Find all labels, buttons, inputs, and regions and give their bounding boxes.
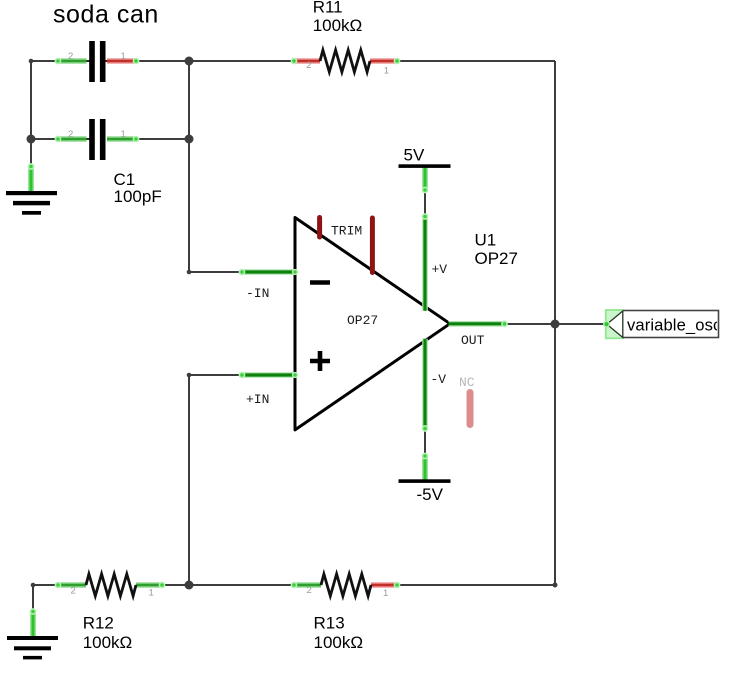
capacitor C1 (55, 119, 138, 160)
wire to +IN pin (189, 374, 242, 376)
op-amp pin -V (422, 339, 427, 431)
svg-text:-IN: -IN (246, 286, 269, 301)
node corner bottom-left (31, 583, 36, 588)
label NC (459, 375, 475, 390)
wire OUT to right junction (505, 323, 555, 325)
op-amp pin +V (422, 214, 427, 311)
svg-text:OUT: OUT (461, 333, 485, 348)
op-amp NC pin (467, 393, 474, 425)
wire bottom-left to ground (32, 585, 34, 612)
wire bottom-left horizontal (33, 584, 58, 586)
wire 5V to +V pin (424, 191, 426, 216)
power 5V (399, 145, 451, 192)
op-amp pin +IN (239, 372, 297, 377)
net label variable_osc (604, 310, 722, 338)
svg-text:2: 2 (68, 129, 73, 140)
junction node top mid (185, 57, 194, 66)
wire -V pin to -5V (424, 429, 426, 455)
wire bottom right horizontal (397, 584, 555, 586)
wire left vertical (top) (30, 61, 32, 139)
op-amp pin -IN (239, 269, 297, 274)
wire R12 to bottom junction (162, 584, 189, 586)
wire mid vertical to -IN corner (188, 139, 190, 272)
resistor R13 (291, 574, 399, 599)
junction node left (C1) (27, 135, 36, 144)
ground (top left) (6, 164, 57, 215)
capacitor soda can (55, 41, 138, 82)
label +V (432, 262, 448, 277)
wire C1 to mid junction (136, 138, 189, 140)
wire top-left horizontal (31, 60, 58, 62)
svg-text:+V: +V (432, 262, 448, 277)
resistor R11 (291, 50, 399, 76)
op-amp pin OUT (449, 321, 508, 326)
op-amp U1 triangle (295, 218, 450, 430)
svg-text:NC: NC (459, 375, 475, 390)
svg-text:100kΩ: 100kΩ (313, 16, 363, 35)
svg-text:1: 1 (383, 588, 388, 599)
label soda can (53, 1, 159, 29)
wire +IN corner to bottom junction (188, 375, 190, 585)
label R11 100k (313, 0, 363, 35)
svg-text:-V: -V (431, 372, 447, 387)
op-amp OP27 inner label (347, 313, 378, 328)
svg-text:+IN: +IN (246, 392, 269, 407)
wire left junction to C1 (31, 138, 58, 140)
label -IN (246, 286, 269, 301)
label TRIM (331, 224, 362, 239)
svg-text:1: 1 (384, 65, 389, 76)
op-amp minus symbol (310, 280, 330, 285)
svg-text:2: 2 (68, 51, 73, 62)
op-amp plus symbol (310, 351, 330, 371)
wire junction to R11 (189, 60, 294, 62)
label C1 100pF (114, 170, 162, 206)
svg-text:2: 2 (71, 585, 76, 596)
wire right junction to net label (555, 323, 608, 325)
svg-text:R13: R13 (314, 613, 345, 632)
power -5V (399, 453, 451, 504)
svg-text:TRIM: TRIM (331, 224, 362, 239)
svg-text:2: 2 (307, 585, 312, 596)
svg-text:OP27: OP27 (475, 249, 518, 268)
label R12 100k (83, 613, 133, 652)
svg-text:100kΩ: 100kΩ (83, 633, 133, 652)
svg-text:1: 1 (121, 129, 126, 140)
svg-text:R11: R11 (313, 0, 343, 17)
junction node right (OUT) (551, 320, 560, 329)
junction node mid (C1 right) (185, 135, 194, 144)
wire mid vertical upper (188, 61, 190, 139)
node corner top-left (29, 59, 34, 64)
junction node bottom mid (185, 581, 194, 590)
label U1 OP27 (475, 231, 518, 268)
svg-text:U1: U1 (475, 231, 497, 250)
svg-text:R12: R12 (83, 613, 114, 632)
node corner bottom-right (553, 583, 558, 588)
wire R11 to top-right corner (397, 60, 555, 62)
wire bottom junction to R13 (189, 584, 294, 586)
wire top mid (cap1 to junction) (136, 60, 189, 62)
svg-text:2: 2 (306, 60, 311, 71)
svg-text:100pF: 100pF (114, 187, 162, 206)
node corner +IN (187, 373, 192, 378)
node corner -IN (187, 270, 192, 275)
label -V (431, 372, 447, 387)
wire to -IN pin (189, 271, 242, 273)
svg-text:5V: 5V (404, 145, 425, 164)
op-amp TRIM pin 1 (317, 218, 322, 238)
svg-text:-5V: -5V (417, 485, 444, 504)
svg-text:soda can: soda can (53, 1, 159, 29)
svg-text:100kΩ: 100kΩ (314, 633, 364, 652)
resistor R12 (55, 574, 164, 598)
label OUT (461, 333, 485, 348)
wire right vertical upper (554, 61, 556, 324)
op-amp TRIM pin 2 (370, 218, 375, 273)
label R13 100k (314, 613, 364, 652)
wire right vertical lower (554, 324, 556, 585)
svg-text:1: 1 (121, 51, 126, 62)
svg-text:variable_osc: variable_osc (627, 315, 721, 334)
ground (bottom left) (7, 609, 58, 660)
wire left junction to ground (30, 139, 32, 167)
svg-text:1: 1 (149, 587, 154, 598)
label +IN (246, 392, 269, 407)
svg-text:OP27: OP27 (347, 313, 378, 328)
